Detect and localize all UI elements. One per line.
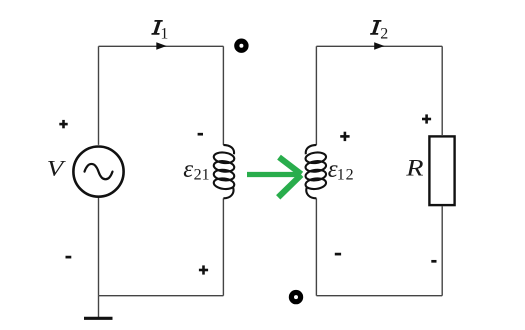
- label I2: [370, 20, 381, 35]
- svg-text:21: 21: [194, 167, 210, 184]
- svg-text:R: R: [405, 156, 424, 181]
- plus sign at source top: [59, 120, 67, 128]
- svg-text:ε: ε: [183, 156, 193, 183]
- svg-text:2: 2: [380, 25, 388, 42]
- minus sign at source bottom: [66, 256, 72, 259]
- AC source V1: [73, 147, 123, 197]
- plus sign at resistor top: [422, 114, 431, 123]
- plus sign at coil L1 bottom: [199, 265, 208, 274]
- polarity dot 1: [237, 41, 246, 50]
- polarity dot 2: [291, 293, 300, 302]
- current arrow I2: [374, 42, 384, 50]
- minus sign at resistor bottom: [431, 260, 436, 263]
- label I1: [151, 20, 162, 35]
- wire: ground stem: [98, 296, 100, 318]
- wire: primary loop bottom horizontal: [99, 295, 224, 297]
- inductor L2 (coil e12): [305, 145, 327, 198]
- wire: secondary loop left vertical bottom segment: [315, 198, 317, 295]
- minus sign at coil L1 top: [198, 133, 203, 136]
- inductor L1 (coil e21): [213, 145, 235, 198]
- wire: primary loop left vertical top segment: [98, 46, 100, 145]
- current arrow I1: [156, 42, 166, 50]
- resistor R: [429, 136, 454, 205]
- wire: primary loop right vertical bottom segment: [222, 198, 224, 295]
- wire: primary loop top horizontal: [99, 45, 224, 47]
- wire: primary loop left vertical bottom segment: [98, 198, 100, 296]
- plus sign at coil L2 top: [340, 132, 349, 141]
- wire: secondary loop right vertical bottom segment: [441, 206, 443, 295]
- svg-text:1: 1: [160, 26, 168, 43]
- wire: secondary loop right vertical top segment: [441, 46, 443, 135]
- minus sign at coil L2 bottom: [335, 253, 341, 256]
- wire: secondary loop bottom horizontal: [316, 295, 442, 297]
- green coupling arrow: [247, 157, 301, 197]
- wire: secondary loop top horizontal: [316, 45, 442, 47]
- wire: secondary loop left vertical top segment: [315, 46, 317, 145]
- ground: [84, 317, 113, 320]
- svg-text:12: 12: [337, 167, 355, 184]
- wire: primary loop right vertical top segment: [222, 46, 224, 145]
